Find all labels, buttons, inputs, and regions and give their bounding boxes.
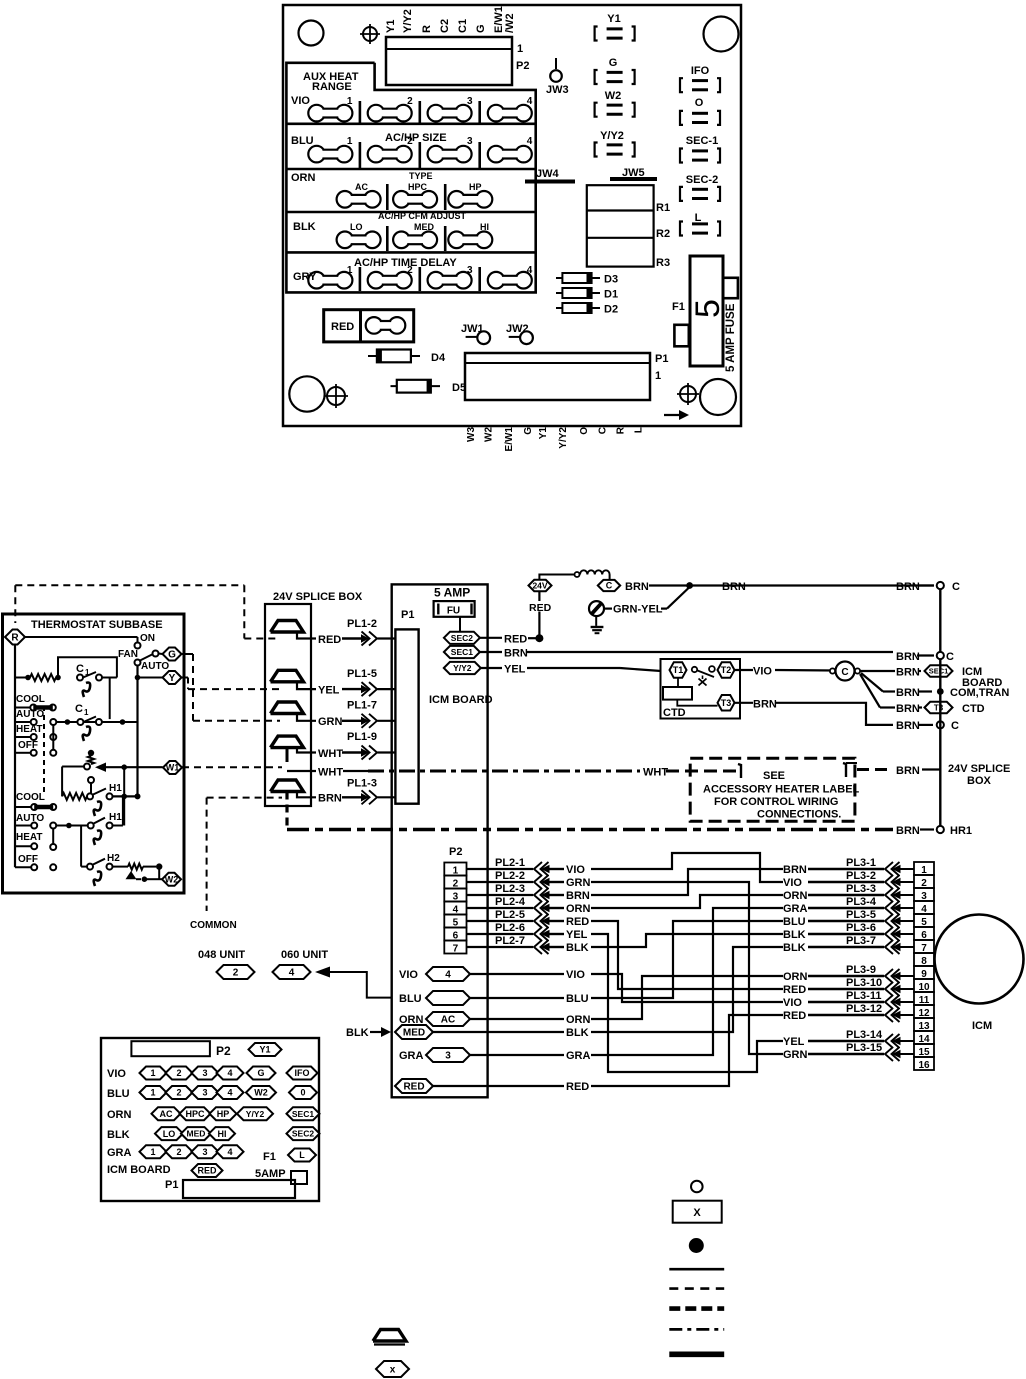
svg-text:4: 4: [289, 968, 295, 979]
svg-text:P2: P2: [216, 1044, 231, 1058]
svg-text:H1: H1: [109, 812, 122, 823]
svg-text:ICM: ICM: [972, 1020, 992, 1032]
svg-text:VIO: VIO: [107, 1068, 126, 1080]
svg-text:O: O: [579, 427, 590, 435]
svg-text:F1: F1: [672, 301, 685, 313]
svg-text:GRN: GRN: [566, 877, 591, 889]
svg-text:RED: RED: [318, 634, 341, 646]
svg-text:3: 3: [202, 1088, 207, 1098]
svg-text:R: R: [421, 25, 433, 33]
svg-text:1: 1: [347, 96, 353, 107]
svg-text:BRN: BRN: [896, 765, 920, 777]
svg-text:VIO: VIO: [399, 969, 418, 981]
svg-text:PL3-10: PL3-10: [846, 977, 882, 989]
svg-text:OFF: OFF: [18, 854, 38, 865]
svg-text:F1: F1: [263, 1151, 276, 1163]
svg-text:SEC2: SEC2: [292, 1129, 314, 1139]
svg-text:HPC: HPC: [408, 182, 428, 192]
svg-text:24V: 24V: [532, 581, 547, 591]
svg-text:HP: HP: [469, 182, 482, 192]
svg-text:4: 4: [227, 1068, 232, 1078]
svg-text:BRN: BRN: [753, 698, 777, 710]
svg-text:Y/Y2: Y/Y2: [453, 663, 472, 673]
svg-text:W2: W2: [605, 90, 622, 102]
svg-text:C1: C1: [457, 19, 469, 33]
svg-text:3: 3: [202, 1068, 207, 1078]
svg-text:BRN: BRN: [504, 648, 528, 660]
svg-text:P2: P2: [449, 846, 462, 858]
svg-text:BLK: BLK: [566, 1027, 589, 1039]
svg-text:BRN: BRN: [783, 864, 807, 876]
svg-text:GRA: GRA: [783, 903, 808, 915]
svg-text:RANGE: RANGE: [312, 81, 352, 93]
svg-text:W2: W2: [165, 875, 179, 885]
svg-text:MED: MED: [414, 222, 435, 232]
svg-text:R2: R2: [656, 228, 670, 240]
svg-text:1: 1: [150, 1068, 155, 1078]
svg-text:0: 0: [300, 1088, 305, 1098]
svg-text:PL3-12: PL3-12: [846, 1003, 882, 1015]
svg-text:T2: T2: [721, 665, 732, 675]
svg-text:L: L: [299, 1150, 305, 1160]
svg-text:PL1-3: PL1-3: [347, 778, 377, 790]
svg-text:5 AMP: 5 AMP: [434, 586, 470, 600]
svg-text:HPC: HPC: [185, 1109, 205, 1119]
svg-text:3: 3: [467, 265, 473, 276]
svg-text:LO: LO: [350, 222, 363, 232]
svg-text:SEC2: SEC2: [451, 633, 473, 643]
svg-text:BLK: BLK: [783, 929, 806, 941]
svg-text:2: 2: [176, 1147, 181, 1157]
svg-text:PL3-2: PL3-2: [846, 870, 876, 882]
svg-text:2: 2: [407, 96, 413, 107]
svg-text:PL3-9: PL3-9: [846, 964, 876, 976]
svg-text:4: 4: [527, 136, 533, 147]
svg-text:G: G: [168, 650, 176, 661]
svg-text:Y1: Y1: [385, 20, 397, 33]
svg-text:RED: RED: [403, 1082, 424, 1093]
svg-text:D4: D4: [431, 352, 446, 364]
svg-text:YEL: YEL: [783, 1036, 805, 1048]
svg-text:Y/Y2: Y/Y2: [246, 1109, 265, 1119]
svg-text:X: X: [693, 1207, 701, 1219]
svg-text:VIO: VIO: [566, 864, 585, 876]
svg-text:1: 1: [517, 43, 523, 55]
svg-text:C: C: [841, 667, 848, 678]
svg-text:3: 3: [467, 136, 473, 147]
svg-text:SEC-1: SEC-1: [686, 135, 718, 147]
svg-text:4: 4: [227, 1088, 232, 1098]
svg-text:THERMOSTAT SUBBASE: THERMOSTAT SUBBASE: [31, 619, 163, 631]
svg-text:L: L: [633, 427, 644, 433]
svg-text:BLK: BLK: [107, 1129, 130, 1141]
svg-text:1: 1: [347, 136, 353, 147]
svg-text:C2: C2: [439, 19, 451, 33]
svg-text:BLU: BLU: [107, 1088, 130, 1100]
svg-text:VIO: VIO: [753, 666, 772, 678]
svg-text:ORN: ORN: [566, 903, 591, 915]
svg-text:PL3-4: PL3-4: [846, 896, 877, 908]
svg-text:RED: RED: [331, 321, 354, 333]
svg-text:VIO: VIO: [783, 997, 802, 1009]
svg-text:SEC1: SEC1: [929, 667, 949, 676]
svg-text:1: 1: [655, 370, 661, 382]
svg-text:24V SPLICE: 24V SPLICE: [948, 763, 1010, 775]
svg-text:T1: T1: [673, 665, 684, 675]
svg-text:BRN: BRN: [896, 825, 920, 837]
svg-text:SEC1: SEC1: [451, 647, 473, 657]
svg-text:JW3: JW3: [546, 84, 569, 96]
svg-text:BLK: BLK: [566, 942, 589, 954]
svg-text:P1: P1: [401, 609, 414, 621]
svg-text:BRN: BRN: [896, 703, 920, 715]
svg-text:PL1-5: PL1-5: [347, 668, 377, 680]
svg-text:060 UNIT: 060 UNIT: [281, 949, 328, 961]
svg-text:HEAT: HEAT: [16, 724, 42, 735]
svg-text:COM,TRAN: COM,TRAN: [950, 687, 1009, 699]
svg-text:2: 2: [176, 1088, 181, 1098]
svg-text:RED: RED: [504, 633, 527, 645]
svg-text:HR1: HR1: [950, 825, 972, 837]
svg-text:COOL: COOL: [16, 792, 45, 803]
svg-text:E/W1: E/W1: [504, 427, 515, 452]
svg-text:3: 3: [445, 1051, 451, 1062]
svg-text:SEC1: SEC1: [292, 1109, 314, 1119]
svg-text:YEL: YEL: [566, 929, 588, 941]
svg-text:4: 4: [227, 1147, 232, 1157]
svg-text:R: R: [11, 633, 19, 644]
svg-text:048 UNIT: 048 UNIT: [198, 949, 245, 961]
svg-text:PL3-5: PL3-5: [846, 909, 876, 921]
svg-text:VIO: VIO: [566, 969, 585, 981]
svg-text:ORN: ORN: [566, 1014, 591, 1026]
svg-text:GRA: GRA: [566, 1050, 591, 1062]
svg-text:GRN-YEL: GRN-YEL: [613, 604, 663, 616]
svg-text:AC/HP SIZE: AC/HP SIZE: [385, 132, 447, 144]
svg-text:RED: RED: [566, 1081, 589, 1093]
svg-text:GRA: GRA: [399, 1050, 424, 1062]
svg-text:C: C: [597, 427, 608, 434]
svg-text:PL3-7: PL3-7: [846, 935, 876, 947]
svg-text:G: G: [609, 57, 618, 69]
svg-text:SEC-2: SEC-2: [686, 174, 718, 186]
svg-text:BLK: BLK: [783, 942, 806, 954]
svg-text:BLU: BLU: [566, 993, 589, 1005]
svg-text:BRN: BRN: [896, 667, 920, 679]
svg-text:D3: D3: [604, 274, 618, 286]
svg-text:2: 2: [407, 136, 413, 147]
svg-text:ICM BOARD: ICM BOARD: [107, 1164, 171, 1176]
svg-text:FAN: FAN: [118, 649, 138, 660]
svg-text:RED: RED: [566, 916, 589, 928]
svg-text:WHT: WHT: [643, 767, 668, 779]
svg-text:PL2-3: PL2-3: [495, 883, 525, 895]
svg-text:CTD: CTD: [962, 703, 985, 715]
svg-text:W2: W2: [254, 1088, 268, 1098]
svg-text:VIO: VIO: [783, 877, 802, 889]
svg-text:BRN: BRN: [896, 720, 920, 732]
svg-text:O: O: [695, 97, 704, 109]
svg-text:Y/Y2: Y/Y2: [402, 9, 414, 33]
svg-text:PL2-4: PL2-4: [495, 896, 526, 908]
svg-text:Y/Y2: Y/Y2: [558, 427, 569, 449]
svg-text:FOR CONTROL WIRING: FOR CONTROL WIRING: [714, 796, 838, 808]
svg-text:W1: W1: [166, 763, 180, 773]
svg-text:1: 1: [84, 708, 89, 717]
svg-text:JW4: JW4: [536, 168, 560, 180]
svg-text:CTD: CTD: [663, 707, 686, 719]
svg-text:RED: RED: [197, 1166, 217, 1176]
svg-text:BRN: BRN: [896, 687, 920, 699]
svg-text:Y: Y: [169, 673, 176, 684]
svg-text:2: 2: [407, 265, 413, 276]
svg-text:R1: R1: [656, 202, 670, 214]
svg-text:4: 4: [445, 970, 451, 981]
svg-text:G: G: [257, 1068, 264, 1078]
svg-text:R3: R3: [656, 257, 670, 269]
svg-text:/W2: /W2: [504, 13, 516, 33]
svg-text:ACCESSORY HEATER LABEL: ACCESSORY HEATER LABEL: [703, 784, 860, 796]
svg-text:PL2-5: PL2-5: [495, 909, 525, 921]
svg-text:LO: LO: [163, 1129, 176, 1139]
svg-text:2: 2: [176, 1068, 181, 1078]
svg-text:16: 16: [918, 1060, 930, 1071]
svg-text:4: 4: [527, 265, 533, 276]
svg-text:AC/HP CFM ADJUST: AC/HP CFM ADJUST: [378, 211, 467, 221]
svg-text:4: 4: [527, 96, 533, 107]
svg-text:C: C: [606, 581, 613, 591]
svg-text:MED: MED: [187, 1129, 206, 1139]
svg-text:BRN: BRN: [896, 651, 920, 663]
svg-text:x: x: [390, 1365, 396, 1376]
svg-text:PL3-14: PL3-14: [846, 1029, 883, 1041]
svg-text:P2: P2: [516, 60, 529, 72]
svg-text:H1: H1: [109, 783, 122, 794]
svg-text:C: C: [76, 663, 84, 675]
svg-text:Y1: Y1: [538, 427, 549, 440]
svg-text:1: 1: [347, 265, 353, 276]
svg-text:PL1-7: PL1-7: [347, 700, 377, 712]
svg-text:JW2: JW2: [506, 323, 529, 335]
svg-text:BRN: BRN: [722, 581, 746, 593]
svg-text:RED: RED: [529, 602, 552, 614]
svg-text:PL3-11: PL3-11: [846, 990, 881, 1002]
svg-text:BLK: BLK: [293, 221, 316, 233]
svg-text:BLK: BLK: [346, 1027, 369, 1039]
svg-text:Y1: Y1: [259, 1045, 270, 1055]
svg-text:COMMON: COMMON: [190, 920, 237, 931]
svg-text:W2: W2: [484, 427, 495, 442]
svg-text:YEL: YEL: [318, 685, 340, 697]
svg-text:C: C: [951, 720, 959, 732]
svg-text:HI: HI: [218, 1129, 227, 1139]
svg-text:GRA: GRA: [107, 1147, 132, 1159]
svg-text:BRN: BRN: [896, 581, 920, 593]
svg-text:D1: D1: [604, 289, 618, 301]
svg-text:G: G: [475, 24, 487, 33]
svg-text:2: 2: [233, 968, 239, 979]
svg-text:BLU: BLU: [399, 993, 422, 1005]
svg-text:AUTO: AUTO: [16, 709, 44, 720]
svg-text:7: 7: [453, 944, 459, 955]
svg-text:5AMP: 5AMP: [255, 1168, 286, 1180]
svg-text:AUTO: AUTO: [16, 813, 44, 824]
svg-text:ORN: ORN: [783, 971, 808, 983]
svg-text:ON: ON: [140, 633, 155, 644]
svg-text:BLU: BLU: [291, 135, 314, 147]
svg-text:RED: RED: [783, 1010, 806, 1022]
svg-text:D2: D2: [604, 304, 618, 316]
svg-text:IFO: IFO: [295, 1068, 310, 1078]
svg-text:G: G: [523, 427, 534, 435]
svg-text:R: R: [615, 426, 626, 434]
svg-text:BLU: BLU: [783, 916, 806, 928]
svg-text:CONNECTIONS.: CONNECTIONS.: [757, 809, 841, 821]
svg-text:AC/HP TIME DELAY: AC/HP TIME DELAY: [354, 257, 457, 269]
svg-text:BOX: BOX: [967, 775, 992, 787]
svg-text:VIO: VIO: [291, 95, 310, 107]
svg-text:PL3-15: PL3-15: [846, 1042, 882, 1054]
svg-text:PL1-9: PL1-9: [347, 731, 377, 743]
svg-text:3: 3: [467, 96, 473, 107]
svg-text:1: 1: [85, 668, 90, 677]
svg-text:T3: T3: [721, 698, 732, 708]
svg-text:SEE: SEE: [763, 770, 785, 782]
svg-text:FU: FU: [447, 606, 460, 617]
svg-text:Y/Y2: Y/Y2: [600, 130, 624, 142]
svg-text:PL1-2: PL1-2: [347, 618, 377, 630]
svg-text:COOL: COOL: [16, 694, 45, 705]
svg-text:Y1: Y1: [607, 13, 620, 25]
svg-text:1: 1: [150, 1147, 155, 1157]
svg-text:L: L: [695, 212, 702, 224]
svg-text:HP: HP: [217, 1109, 230, 1119]
svg-text:PL2-1: PL2-1: [495, 857, 525, 869]
svg-text:BRN: BRN: [318, 793, 342, 805]
svg-text:MED: MED: [403, 1028, 425, 1039]
svg-text:PL2-2: PL2-2: [495, 870, 525, 882]
svg-text:P1: P1: [655, 353, 668, 365]
svg-text:PL2-6: PL2-6: [495, 922, 525, 934]
svg-text:P1: P1: [165, 1179, 178, 1191]
svg-text:PL2-7: PL2-7: [495, 935, 525, 947]
svg-text:HEAT: HEAT: [16, 832, 42, 843]
svg-text:C: C: [75, 703, 83, 715]
svg-text:ICM BOARD: ICM BOARD: [429, 694, 493, 706]
svg-text:ORN: ORN: [783, 890, 808, 902]
svg-text:WHT: WHT: [318, 767, 343, 779]
svg-text:W3: W3: [466, 427, 477, 442]
svg-text:TYPE: TYPE: [409, 171, 433, 181]
svg-text:PL3-6: PL3-6: [846, 922, 876, 934]
svg-text:YEL: YEL: [504, 664, 526, 676]
svg-text:C: C: [946, 651, 954, 663]
svg-text:24V SPLICE BOX: 24V SPLICE BOX: [273, 591, 363, 603]
svg-text:GRN: GRN: [318, 716, 343, 728]
svg-text:T3: T3: [934, 703, 944, 712]
svg-text:IFO: IFO: [691, 65, 710, 77]
svg-text:H2: H2: [107, 853, 120, 864]
svg-text:WHT: WHT: [318, 748, 343, 760]
svg-text:ORN: ORN: [291, 172, 316, 184]
svg-text:RED: RED: [783, 984, 806, 996]
svg-text:C: C: [952, 581, 960, 593]
svg-text:BRN: BRN: [625, 581, 649, 593]
svg-text:AC: AC: [441, 1015, 455, 1026]
svg-text:3: 3: [202, 1147, 207, 1157]
svg-text:AC: AC: [160, 1109, 173, 1119]
svg-text:5 AMP FUSE: 5 AMP FUSE: [725, 303, 737, 372]
svg-text:BRN: BRN: [566, 890, 590, 902]
svg-text:AUTO: AUTO: [141, 661, 169, 672]
svg-text:GRN: GRN: [783, 1049, 808, 1061]
svg-text:PL3-1: PL3-1: [846, 857, 876, 869]
svg-text:5: 5: [689, 299, 727, 318]
svg-text:ORN: ORN: [107, 1109, 132, 1121]
svg-text:PL3-3: PL3-3: [846, 883, 876, 895]
svg-text:1: 1: [150, 1088, 155, 1098]
svg-text:AC: AC: [355, 182, 368, 192]
